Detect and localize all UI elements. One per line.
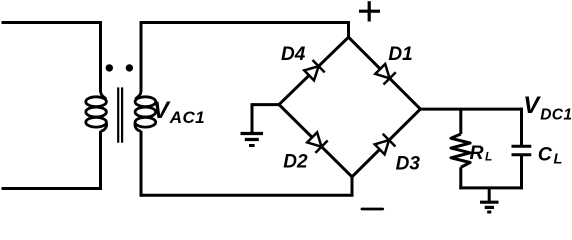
label VAC1 bbox=[153, 97, 205, 127]
svg-text:V: V bbox=[153, 97, 171, 124]
label RL bbox=[470, 142, 493, 164]
diode D1 bbox=[375, 64, 396, 85]
svg-text:D2: D2 bbox=[283, 152, 308, 173]
wire bridge arm lower-left bbox=[279, 105, 352, 177]
diode D2 bbox=[307, 132, 328, 153]
phasing dot left bbox=[106, 64, 113, 71]
capacitor CL bbox=[512, 146, 532, 155]
svg-text:AC1: AC1 bbox=[169, 108, 205, 127]
inductor primary winding bbox=[86, 92, 107, 132]
diode D4 bbox=[304, 60, 325, 80]
wire secondary top to bridge bbox=[141, 23, 349, 38]
label CL bbox=[538, 143, 563, 167]
svg-text:C: C bbox=[538, 143, 553, 165]
wire capacitor branch bottom bbox=[520, 155, 523, 190]
wire primary right vertical upper bbox=[99, 21, 102, 92]
ground left bbox=[241, 134, 264, 146]
wire bridge output to load bbox=[420, 108, 521, 111]
wire bridge arm upper-right bbox=[349, 37, 421, 109]
wire capacitor branch top bbox=[520, 108, 523, 147]
svg-text:V: V bbox=[523, 92, 541, 119]
svg-text:DC1: DC1 bbox=[540, 106, 572, 123]
svg-text:R: R bbox=[470, 142, 484, 164]
inductor secondary winding bbox=[135, 92, 156, 132]
wire resistor branch top bbox=[459, 109, 462, 134]
plus terminal bbox=[359, 1, 380, 21]
wire secondary vertical upper bbox=[140, 21, 143, 92]
wire bridge arm upper-left bbox=[279, 37, 349, 104]
wire resistor branch bottom bbox=[459, 167, 462, 189]
ground right bbox=[480, 202, 499, 212]
wire primary top bbox=[2, 21, 101, 24]
wire secondary vertical lower bbox=[140, 131, 143, 197]
phasing dot right bbox=[126, 64, 133, 71]
svg-text:D3: D3 bbox=[396, 153, 421, 174]
wire bridge arm lower-right bbox=[352, 109, 420, 177]
diode D3 bbox=[375, 134, 396, 155]
transformer core bbox=[118, 87, 122, 142]
svg-text:D4: D4 bbox=[281, 44, 306, 65]
resistor RL bbox=[451, 134, 470, 167]
wire load bottom bbox=[459, 186, 523, 189]
label VDC1 bbox=[523, 92, 572, 123]
svg-text:L: L bbox=[485, 150, 492, 164]
svg-text:L: L bbox=[554, 152, 563, 168]
wire primary bottom bbox=[2, 187, 101, 190]
wire bridge left vertex to ground bbox=[252, 105, 279, 134]
minus terminal bbox=[362, 208, 383, 211]
wire ground stub bbox=[488, 188, 491, 202]
wire secondary bottom to bridge bbox=[141, 177, 352, 195]
svg-text:D1: D1 bbox=[388, 44, 412, 65]
wire primary right vertical lower bbox=[99, 131, 102, 190]
